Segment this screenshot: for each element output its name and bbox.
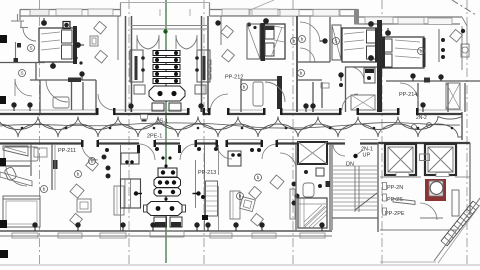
- lobby wall below elevators: [380, 176, 421, 178]
- entry step wall x21: [20, 21, 22, 28]
- door arc corridor A: [98, 94, 114, 110]
- wall stub: [30, 144, 32, 176]
- boundary dash diagonal top-right: [452, 0, 476, 15]
- bed D pillows: [383, 39, 392, 52]
- door arc hallway A: [15, 79, 32, 96]
- sconce pair B: [304, 104, 315, 112]
- facade window bump left: [30, 10, 49, 16]
- window unit boxes on facade: [56, 9, 452, 25]
- riser hexagon housing: [149, 86, 185, 101]
- wall items on wall D: [441, 38, 445, 59]
- wall x52: [51, 144, 53, 190]
- bed A headboard: [73, 26, 77, 64]
- sink lower-left bath: [34, 148, 47, 157]
- stairs door arc: [333, 144, 345, 156]
- niche shelving x205-218: [206, 181, 218, 216]
- sofa 211: [114, 186, 124, 215]
- angled counter top-left: [3, 146, 28, 156]
- stair newel walls: [354, 166, 356, 212]
- bathroom D walls: [386, 81, 480, 112]
- TV cabinet on wall 296: [290, 189, 295, 219]
- sconce room C: [339, 73, 343, 87]
- ceiling light C corners: [369, 22, 374, 61]
- sensor b room D: [418, 48, 425, 55]
- wall x296: [295, 144, 297, 230]
- armchair diamond right: [270, 175, 284, 189]
- armchair diamond up: [249, 186, 262, 199]
- chase wall x195.5: [195, 160, 197, 208]
- festoon junction dots: [21, 127, 454, 130]
- corridor bottom wall lower line y=144: [0, 142, 470, 145]
- grid line col4 x=204: [203, 0, 205, 265]
- toilet lower-left: [4, 166, 17, 181]
- wall x120.5: [120, 145, 122, 231]
- door arc module5: [280, 153, 296, 169]
- panel box left: [121, 179, 141, 208]
- wardrobe C: [332, 25, 341, 60]
- bed A pillows dark: [62, 30, 73, 43]
- bathroom B walls: [241, 79, 322, 112]
- facade corner bend top-right: [462, 17, 467, 45]
- lobby right wall: [469, 143, 471, 215]
- sensor S room A: [28, 45, 35, 52]
- bed C frame: [342, 28, 378, 62]
- stair walls: [331, 144, 333, 230]
- dark fixtures module5: [304, 168, 324, 188]
- FCU box left of riser: [130, 50, 143, 82]
- bed B frame: [261, 24, 285, 59]
- grid line col7 x=467: [466, 0, 468, 265]
- door arc room B corridor: [210, 94, 228, 112]
- party wall col6 dark (x378-382): [377, 20, 382, 112]
- bathroom C walls: [298, 17, 330, 62]
- windows bottom: [12, 231, 325, 238]
- armchair diamond A1: [94, 21, 107, 34]
- linen closet with X: [446, 83, 460, 109]
- door closer dots above wardrobe B: [247, 23, 257, 30]
- armchair diamond D: [450, 29, 463, 42]
- shower box with X: [298, 142, 327, 164]
- bathroom C door arc: [300, 22, 320, 42]
- riser bolts: [155, 51, 178, 83]
- svg-text:S: S: [29, 46, 32, 51]
- wall recess rects by labels: [383, 183, 387, 190]
- party wall col4 (x201-208): [202, 16, 222, 112]
- bolts center line: [161, 156, 171, 200]
- bed B pillows: [265, 26, 274, 39]
- bed C headboard: [375, 28, 378, 62]
- bed C pillows: [367, 30, 377, 43]
- stair treads: [333, 166, 377, 210]
- entry wall x15.5: [15, 42, 17, 62]
- wall stub between elevators: [420, 154, 430, 161]
- facade left step line y21: [11, 20, 24, 22]
- corridor top wall y=114: [0, 113, 462, 115]
- bed D frame: [382, 37, 424, 68]
- small cabinet below right FCU: [195, 85, 206, 94]
- sensor b 211: [89, 158, 96, 165]
- party wall col2 (x125-132): [118, 16, 132, 112]
- sensor b bath C: [299, 36, 306, 43]
- vestibule bay step walls: [120, 3, 122, 17]
- bed module5: [298, 198, 327, 228]
- svg-text:2PE-1: 2PE-1: [147, 134, 162, 140]
- FCU box right of riser: [197, 50, 210, 82]
- wall picture frame A: [90, 36, 98, 46]
- svg-text:S: S: [334, 39, 337, 44]
- outlets on wall 211: [102, 155, 110, 178]
- bathtub B: [253, 82, 263, 106]
- stair node dot + leader: [353, 154, 357, 158]
- armchair diamond 211b: [86, 158, 99, 171]
- svg-text:DN: DN: [346, 162, 354, 168]
- bathtub A: [53, 97, 69, 108]
- sensor b: [41, 186, 48, 193]
- svg-text:PP-212: PP-212: [225, 75, 243, 81]
- vestibule node dot on green line: [163, 29, 167, 33]
- svg-text:UP: UP: [363, 153, 371, 159]
- armchair diamond B2: [222, 49, 235, 62]
- grid line col6 x=382: [381, 0, 383, 265]
- hallway wall x36: [35, 63, 37, 80]
- outlet right of bed: [76, 43, 84, 48]
- grid line col2 x=122: [128, 0, 130, 267]
- sconce corridor right: [421, 103, 425, 112]
- lobby bottom wall: [380, 229, 456, 231]
- corridor cable middle line: [0, 123, 460, 129]
- corridor right end wall x=462: [461, 112, 463, 140]
- riser feet: [152, 103, 164, 111]
- bath C closet with X: [351, 95, 375, 110]
- ceiling light room A1: [42, 18, 47, 25]
- svg-text:2N-2: 2N-2: [416, 115, 427, 121]
- wall x330: [329, 144, 331, 230]
- ceiling light D: [386, 28, 391, 35]
- sconce on bath A wall: [80, 72, 84, 80]
- svg-text:PP-213: PP-213: [198, 170, 216, 176]
- door arc 212 bottom left: [217, 144, 232, 159]
- window mullions top facade: [60, 9, 430, 24]
- stair bottom wall: [332, 217, 378, 219]
- entry jamb dark: [17, 43, 21, 48]
- shower dark band B: [277, 76, 282, 109]
- svg-text:PP-2PE: PP-2PE: [385, 211, 405, 217]
- entry wall left x17.5: [17, 14, 19, 21]
- festoon wiring arcs in corridor (lower chain): [0, 124, 462, 137]
- door arc room C entry: [300, 48, 315, 63]
- svg-text:2S-1: 2S-1: [157, 119, 169, 125]
- door arc 212 bottom right: [262, 144, 277, 159]
- elevator shaft 2: [425, 144, 456, 175]
- party wall col5 (x297-310): [297, 16, 310, 112]
- bed A frame: [39, 28, 75, 62]
- corridor top wall thin line y=110: [0, 109, 462, 111]
- svg-text:PP-2N: PP-2N: [387, 185, 403, 191]
- shelf near bath C: [321, 83, 329, 88]
- riser hexagon bolts: [157, 91, 176, 96]
- grid line col5 x=293: [292, 0, 294, 265]
- armchair diamond 211c: [70, 213, 83, 226]
- bottom ceiling lights row: [33, 223, 324, 231]
- roof diagonal above room B: [250, 0, 274, 10]
- dark block on stair wall: [326, 181, 331, 187]
- lobby bench slanted: [393, 199, 415, 205]
- big octagon side tabs: [144, 205, 148, 212]
- ceiling light room A2: [63, 22, 70, 29]
- right end wall x462: [461, 26, 463, 70]
- jamb marks room C door: [339, 108, 359, 115]
- central riser octagon 2: [154, 178, 181, 188]
- wardrobe room B: [247, 24, 260, 59]
- small cabinet below left FCU: [134, 85, 145, 94]
- sconce right of riser feet: [199, 104, 203, 112]
- svg-text:PP-211: PP-211: [58, 148, 76, 154]
- dark marks above bath A: [74, 56, 82, 64]
- door arc bottom-left: [6, 167, 27, 186]
- small box top-left 213: [121, 153, 139, 164]
- dark jamb on wall x54: [53, 160, 58, 169]
- elevator door sills: [396, 173, 409, 177]
- facade step mark x358: [354, 10, 359, 25]
- bed A mattress lines: [41, 32, 60, 50]
- door arc bath D: [400, 83, 418, 101]
- grid line col1 x=38: [39, 0, 41, 267]
- bath A inner door arc: [46, 80, 68, 102]
- central riser big octagon: [147, 202, 182, 216]
- sensor S room C: [333, 38, 340, 45]
- bath C WC fixture: [364, 68, 375, 83]
- sconce pair A: [12, 103, 32, 111]
- svg-text:S: S: [20, 71, 23, 76]
- sconce room B: [216, 21, 220, 25]
- outlet room C: [320, 39, 327, 43]
- ceiling light B: [264, 19, 269, 24]
- red riser fixture: [425, 179, 446, 201]
- central riser bottom box row1: [158, 168, 177, 177]
- door arc bath B: [265, 82, 285, 102]
- central riser octagon 3: [154, 188, 181, 196]
- armchair diamond B1: [221, 25, 234, 38]
- angled shelf lower-left: [0, 172, 32, 186]
- left edge section ticks: [0, 35, 8, 258]
- bed D mattress lines: [395, 40, 420, 58]
- stair break diagonal: [355, 193, 377, 210]
- bed B headboard: [261, 23, 266, 61]
- bath C door arc: [350, 67, 364, 81]
- sconce pair D: [411, 74, 443, 81]
- wall x204.5: [204, 145, 206, 231]
- sensor b room B right: [291, 38, 298, 45]
- small box top-right 213: [228, 151, 241, 166]
- corridor bottom wall upper thin line y=139.5: [0, 139, 378, 141]
- riser busbars: [153, 51, 180, 84]
- cable circles right corridor: [412, 125, 417, 130]
- stool D: [461, 44, 469, 57]
- grid line col3 (green highlighted) x=165.5: [165, 0, 167, 263]
- bed B mattress fold: [271, 26, 285, 57]
- coffee table 211: [77, 199, 91, 212]
- vestibule drape arch 2: [176, 35, 197, 49]
- door arc room C corridor: [342, 94, 358, 110]
- elevator shaft walls: [385, 144, 416, 175]
- toilet: [303, 183, 314, 197]
- vestibule canopy lines: [131, 25, 208, 27]
- vestibule drape arch 1: [137, 35, 159, 49]
- hallway wall y62.5: [0, 62, 45, 64]
- sensor S bath A: [19, 70, 26, 77]
- bathtub lower-left: [4, 147, 38, 161]
- door arc PP-211: [82, 144, 98, 160]
- bottom horizontal boundary: [380, 261, 436, 263]
- lobby door arc: [420, 203, 437, 220]
- sensor b: [255, 174, 262, 181]
- bed D footboard: [423, 38, 426, 67]
- panel right bolt: [193, 191, 201, 195]
- wall D right: [438, 29, 440, 62]
- sconce left of riser feet: [129, 104, 133, 112]
- lobby wall y218: [420, 217, 443, 219]
- entry door arc room A: [23, 28, 36, 41]
- boundary diagonal bottom-right: [434, 198, 480, 261]
- wall x218.5: [218, 145, 220, 175]
- bathroom C block (x345-377 y66-112): [345, 67, 377, 112]
- elevator 2 X: [428, 147, 453, 172]
- floor lamp below bed: [51, 62, 56, 68]
- door arcs 213: [139, 144, 155, 160]
- escalator ladder diagonal: [441, 201, 479, 246]
- sofa chaise: [230, 191, 240, 219]
- festoon wiring arcs in corridor (upper chain): [0, 117, 462, 130]
- bath A door lintel dark: [68, 78, 81, 83]
- top facade wall with window band: [20, 9, 462, 24]
- entry wall foot dark: [14, 58, 19, 63]
- panel left bolt: [134, 191, 142, 195]
- svg-text:PP-214: PP-214: [399, 92, 417, 98]
- armchair diamond A2: [95, 50, 108, 63]
- bed C mattress lines: [344, 32, 364, 50]
- elevator 1 X: [388, 147, 413, 172]
- shelf right lobby: [452, 190, 459, 216]
- armchair diamond 211a: [70, 184, 84, 198]
- entry step wall y27.5: [20, 27, 28, 29]
- bed bottom-left: [3, 196, 40, 227]
- door jamb marks corridor bottom: [81, 108, 419, 153]
- outlets on wall 296: [292, 182, 299, 205]
- armchair diamond down: [251, 213, 264, 226]
- riser feet bottom: [154, 217, 167, 227]
- table rotated: [240, 197, 256, 212]
- sensor b room B: [298, 70, 305, 77]
- corridor label box 1D1: [141, 115, 148, 120]
- sensor b 211 left: [75, 171, 82, 178]
